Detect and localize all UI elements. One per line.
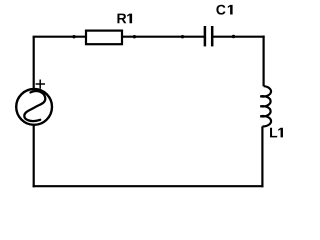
inductor L1 label: [270, 128, 283, 138]
wire bottom horizontal: [33, 185, 264, 187]
node dot left of C1: [181, 35, 184, 38]
resistor R1 label: [117, 14, 132, 24]
node dot right of R1: [133, 35, 136, 38]
wire top-left vertical (source top to top-left corner): [33, 37, 35, 89]
wire C1 to top-right corner: [213, 36, 265, 38]
wire top horizontal left segment (corner to R1): [33, 36, 86, 38]
node dot right of C1: [232, 35, 235, 38]
AC source V1 sine squiggle: [24, 91, 45, 121]
inductor L1 coil: [260, 86, 271, 126]
node dot left of R1: [72, 35, 75, 38]
wire right vertical lower (L1 bottom to bottom-right corner): [261, 126, 263, 187]
AC source V1 circle: [16, 89, 52, 125]
capacitor C1 label: [216, 5, 232, 15]
wire between R1 and C1: [122, 36, 204, 38]
AC source V1 plus sign: [36, 80, 45, 89]
capacitor C1 right plate: [211, 26, 214, 46]
resistor R1 body: [86, 31, 122, 45]
capacitor C1 left plate: [204, 26, 207, 46]
wire right vertical upper (corner to L1 top): [263, 36, 265, 87]
wire bottom-left vertical (corner to source bottom): [33, 125, 35, 187]
